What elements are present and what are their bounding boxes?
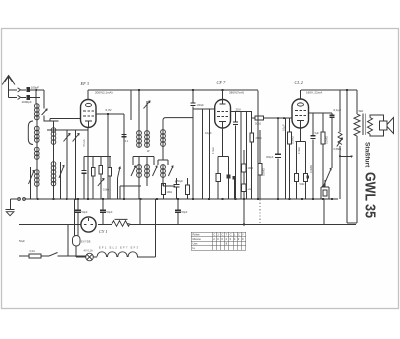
svg-text:1000pF: 1000pF <box>22 100 32 104</box>
svg-text:Messw.: Messw. <box>193 237 202 241</box>
svg-text:25kΩ: 25kΩ <box>256 136 262 140</box>
svg-text:100pF: 100pF <box>31 86 40 90</box>
svg-text:17mA: 17mA <box>297 147 301 154</box>
svg-text:75 mA: 75 mA <box>82 139 86 147</box>
svg-text:6,3V: 6,3V <box>106 108 112 112</box>
svg-text:4V 0,1A: 4V 0,1A <box>84 248 93 252</box>
svg-text:10kΩ: 10kΩ <box>103 188 109 192</box>
svg-text:50μF: 50μF <box>182 210 188 214</box>
svg-text:280V(7mA): 280V(7mA) <box>229 90 244 94</box>
svg-text:1MΩ: 1MΩ <box>248 166 254 170</box>
svg-text:50μF: 50μF <box>177 179 183 183</box>
svg-text:50μF: 50μF <box>82 210 88 214</box>
svg-text:EF 3: EF 3 <box>80 81 89 86</box>
svg-text:CF 7: CF 7 <box>217 80 227 85</box>
svg-text:50μF: 50μF <box>107 210 113 214</box>
svg-text:CY 1: CY 1 <box>99 229 107 234</box>
svg-text:200V(2,1mA): 200V(2,1mA) <box>95 90 113 94</box>
svg-text:0,6A: 0,6A <box>30 249 36 253</box>
svg-text:0,3MΩ: 0,3MΩ <box>291 136 295 144</box>
svg-text:5kΩ: 5kΩ <box>359 109 364 113</box>
svg-text:0,5MΩ: 0,5MΩ <box>261 168 265 176</box>
svg-text:CL 2: CL 2 <box>295 80 304 85</box>
svg-text:C: C <box>238 232 240 236</box>
svg-text:25V: 25V <box>236 108 241 112</box>
svg-text:1MΩ: 1MΩ <box>167 190 173 194</box>
svg-text:C: C <box>230 232 232 236</box>
svg-text:300μF: 300μF <box>266 155 274 159</box>
svg-text:0,1μF: 0,1μF <box>205 131 212 135</box>
svg-text:100pF: 100pF <box>197 103 205 107</box>
svg-text:Y: Y <box>242 232 244 236</box>
svg-text:5μF: 5μF <box>315 131 320 135</box>
svg-text:Röhre: Röhre <box>193 232 201 236</box>
svg-text:GWL 35: GWL 35 <box>362 172 379 218</box>
svg-text:50μF: 50μF <box>19 239 25 243</box>
svg-text:C: C <box>221 232 223 236</box>
svg-text:50Ω: 50Ω <box>300 182 305 186</box>
svg-text:50kΩ: 50kΩ <box>255 121 261 125</box>
svg-text:+G: +G <box>248 187 252 191</box>
svg-text:C: C <box>213 232 215 236</box>
svg-text:Staßfurt: Staßfurt <box>364 142 371 168</box>
svg-text:0,1: 0,1 <box>125 139 129 143</box>
svg-text:0,1μF: 0,1μF <box>282 124 286 131</box>
svg-text:160V, 22mA: 160V, 22mA <box>306 91 322 95</box>
svg-text:0,2MΩ: 0,2MΩ <box>324 136 328 144</box>
svg-text:17mA: 17mA <box>211 147 215 154</box>
svg-text:Uan: Uan <box>193 241 198 245</box>
svg-text:0,5MΩ: 0,5MΩ <box>334 147 342 151</box>
svg-text:EY/YDE: EY/YDE <box>81 240 91 244</box>
svg-text:0,4MΩ: 0,4MΩ <box>309 165 313 173</box>
